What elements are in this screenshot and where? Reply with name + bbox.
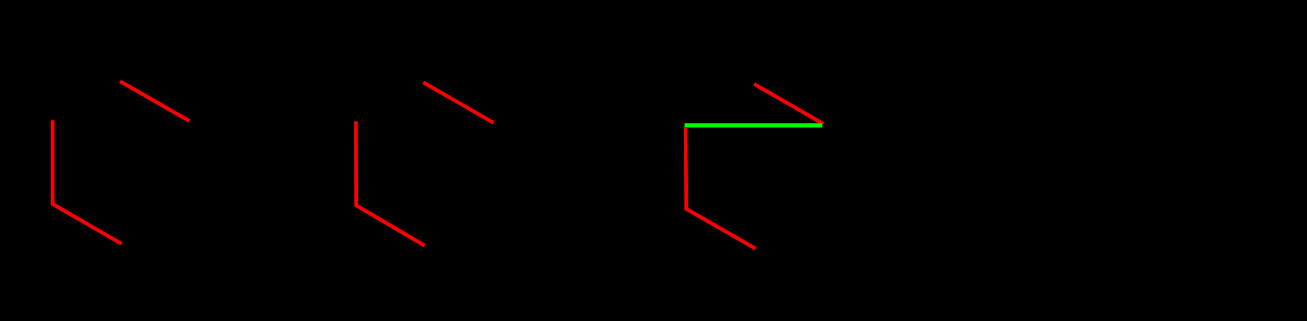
- molecule 1 highlighted bonds F-E and E-D (left vertical + bottom-left diagonal, red): [53, 120, 122, 244]
- molecule 2 highlighted bond A-B (top-right diagonal, red): [423, 82, 493, 123]
- molecule 2 highlighted bonds F-E and E-D (left vertical + bottom-left diagonal, red): [356, 121, 425, 245]
- molecule 3 highlighted bonds F-E and E-D (left vertical + bottom-left diagonal, red): [686, 127, 756, 248]
- molecule 1 highlighted bond A-B (top-right diagonal, red): [120, 81, 190, 121]
- molecule 3 new bond F-B (horizontal, green): [685, 123, 823, 127]
- molecule 3 highlighted bond A-B (top-right diagonal, red): [754, 84, 823, 124]
